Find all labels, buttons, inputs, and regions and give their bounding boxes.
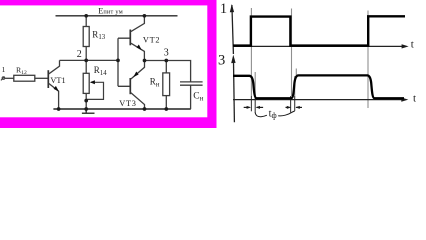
svg-text:1: 1 <box>2 65 6 74</box>
svg-text:t: t <box>413 93 416 105</box>
svg-text:tф: tф <box>269 109 277 121</box>
svg-text:3: 3 <box>218 52 225 68</box>
svg-text:3: 3 <box>164 47 169 58</box>
svg-text:2: 2 <box>77 49 82 60</box>
svg-text:VT3: VT3 <box>119 99 136 108</box>
svg-text:Eпит ум: Eпит ум <box>98 6 123 15</box>
svg-text:VT1: VT1 <box>50 76 65 85</box>
svg-text:1: 1 <box>220 1 227 17</box>
svg-text:t: t <box>411 39 414 51</box>
svg-text:VT2: VT2 <box>143 35 160 44</box>
